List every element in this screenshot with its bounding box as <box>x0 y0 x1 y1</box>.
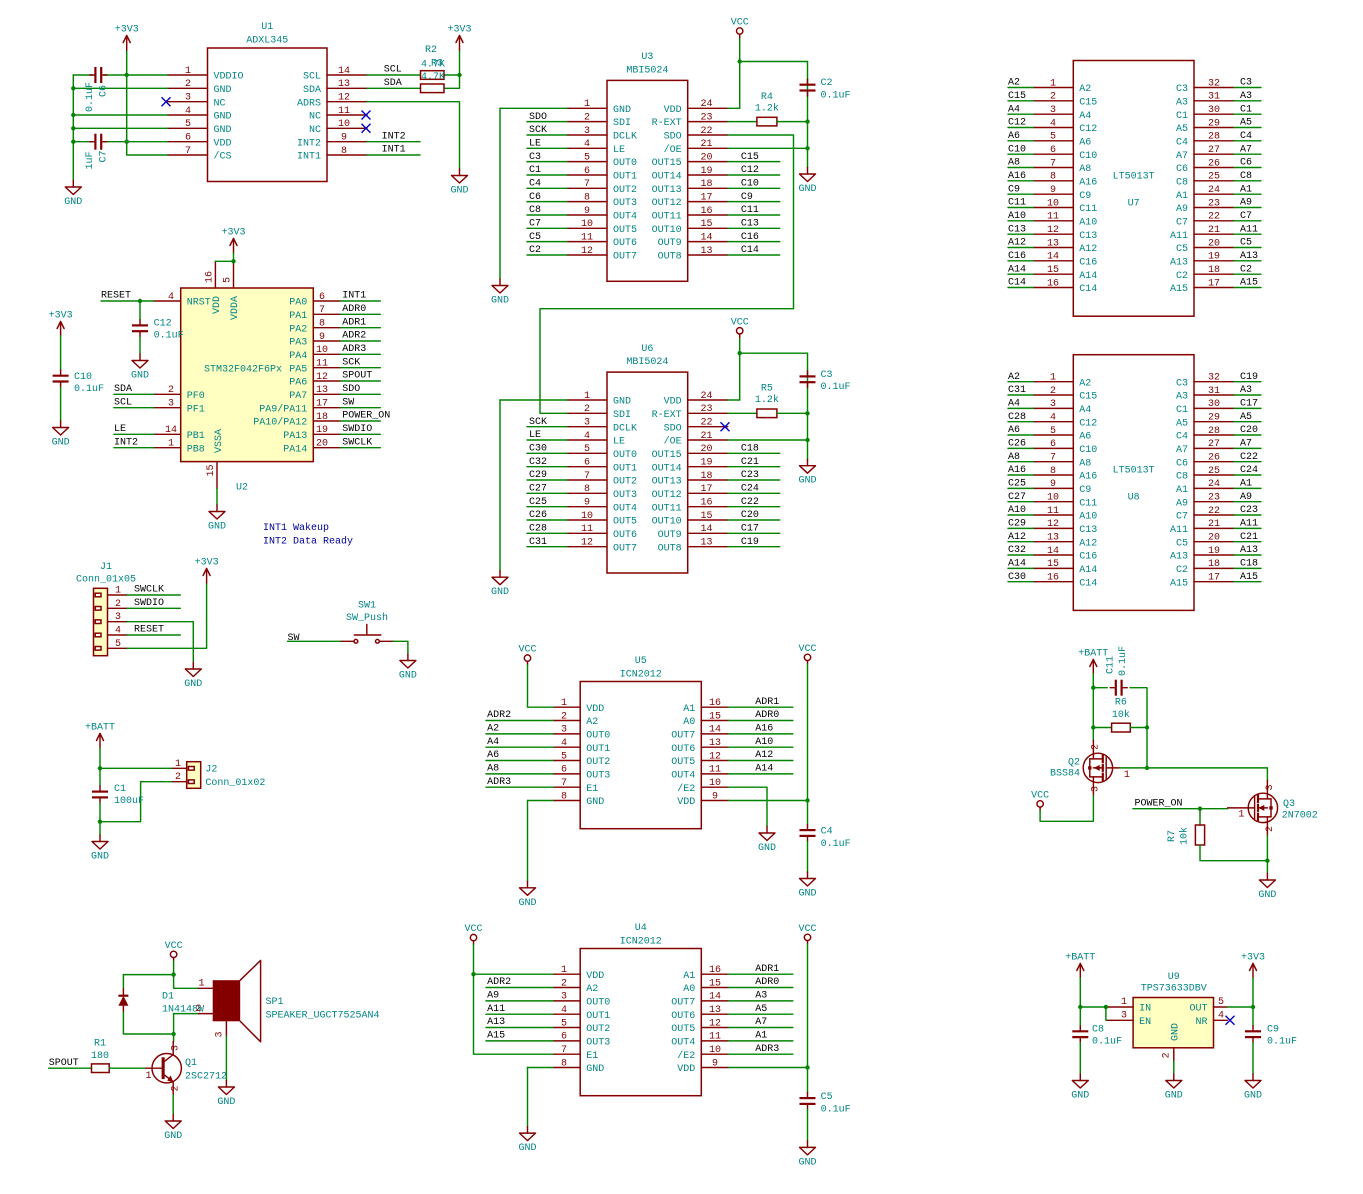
wire A9 <box>1234 207 1261 209</box>
svg-text:12: 12 <box>1047 225 1059 236</box>
svg-text:7: 7 <box>1050 453 1056 464</box>
svg-text:2: 2 <box>1162 1052 1173 1058</box>
svg-text:OUT3: OUT3 <box>613 490 637 501</box>
svg-text:GND: GND <box>586 797 604 808</box>
svg-text:12: 12 <box>316 372 328 383</box>
svg-text:A6: A6 <box>1079 137 1091 148</box>
svg-text:C1: C1 <box>114 784 126 795</box>
power +BATT <box>85 723 115 749</box>
svg-text:DCLK: DCLK <box>613 132 637 143</box>
svg-text:1: 1 <box>584 391 590 402</box>
svg-text:7: 7 <box>185 146 191 157</box>
wire SCK <box>527 426 567 428</box>
svg-text:11: 11 <box>1047 212 1059 223</box>
wire A13 <box>486 1027 553 1029</box>
svg-text:C27: C27 <box>529 484 547 495</box>
svg-text:22: 22 <box>700 126 712 137</box>
resistor R4 1.2k <box>755 92 779 126</box>
wire SDO <box>527 121 567 123</box>
svg-text:SCK: SCK <box>529 417 547 428</box>
junction <box>1091 686 1095 690</box>
svg-text:C7: C7 <box>1176 512 1188 523</box>
svg-text:C12: C12 <box>1079 418 1097 429</box>
svg-text:A8: A8 <box>1008 158 1020 169</box>
svg-text:OUT6: OUT6 <box>613 238 637 249</box>
svg-text:OUT11: OUT11 <box>652 212 682 223</box>
svg-text:17: 17 <box>1208 278 1220 289</box>
svg-text:PA3: PA3 <box>289 338 307 349</box>
svg-text:C11: C11 <box>1008 198 1026 209</box>
wire down <box>807 122 809 149</box>
svg-text:5: 5 <box>115 639 121 650</box>
IC U2 STM32F042F6Px <box>154 261 341 493</box>
svg-text:/E2: /E2 <box>677 1050 695 1062</box>
wire to GND <box>393 641 408 654</box>
junction <box>125 73 129 77</box>
junction <box>1198 807 1202 811</box>
svg-text:2: 2 <box>584 112 590 123</box>
wire ADR0 <box>728 720 793 722</box>
resistor R2 4.7K <box>421 45 446 83</box>
wire +BATT down <box>1079 978 1081 1026</box>
wire C27 <box>1008 501 1033 503</box>
svg-text:13: 13 <box>1047 238 1059 249</box>
junction <box>805 1065 809 1069</box>
svg-text:C4: C4 <box>1240 131 1252 142</box>
ground <box>518 881 536 909</box>
svg-text:INT1: INT1 <box>342 291 366 302</box>
wire VDD pin9 <box>728 1067 807 1069</box>
wire ADR3 <box>486 786 553 788</box>
svg-text:A2: A2 <box>487 724 499 735</box>
svg-text:15: 15 <box>709 711 721 722</box>
svg-text:EN: EN <box>1139 1017 1151 1028</box>
wire A3 <box>1234 100 1261 102</box>
wire Q2 drain to VCC <box>1040 795 1093 821</box>
svg-text:3: 3 <box>1265 784 1276 790</box>
svg-text:VSSA: VSSA <box>214 429 225 453</box>
wire SDO U3 to SDI U6 <box>540 135 794 413</box>
wire to GND <box>807 148 809 167</box>
svg-text:MBI5024: MBI5024 <box>626 357 668 368</box>
svg-text:17: 17 <box>700 192 712 203</box>
junction <box>1145 766 1149 770</box>
wire A10 <box>1008 220 1033 222</box>
svg-text:2: 2 <box>561 978 567 989</box>
svg-text:17: 17 <box>316 399 328 410</box>
wire A2 <box>1008 381 1033 383</box>
svg-text:OUT0: OUT0 <box>613 450 637 461</box>
svg-text:18: 18 <box>700 471 712 482</box>
svg-text:6: 6 <box>584 458 590 469</box>
svg-text:6: 6 <box>319 292 325 303</box>
wire ADR2 <box>340 340 380 342</box>
junction <box>71 126 75 130</box>
svg-text:14: 14 <box>709 725 721 736</box>
svg-text:C21: C21 <box>741 457 759 468</box>
svg-text:19: 19 <box>1208 252 1220 263</box>
svg-text:9: 9 <box>341 133 347 144</box>
svg-text:SWCLK: SWCLK <box>134 585 164 596</box>
svg-text:GND: GND <box>131 371 149 382</box>
junction <box>98 766 102 770</box>
svg-text:13: 13 <box>700 246 712 257</box>
wire R6 right <box>1130 727 1147 729</box>
svg-text:OUT10: OUT10 <box>652 517 682 528</box>
svg-text:15: 15 <box>709 978 721 989</box>
svg-text:26: 26 <box>1208 453 1220 464</box>
svg-text:OUT12: OUT12 <box>652 490 682 501</box>
junction <box>805 411 809 415</box>
wire C6 <box>527 201 567 203</box>
svg-text:C28: C28 <box>529 524 547 535</box>
wire VCC drop <box>739 337 741 400</box>
junction <box>171 1032 175 1036</box>
svg-text:GND: GND <box>1258 890 1276 901</box>
wire SW <box>340 407 380 409</box>
svg-text:OUT3: OUT3 <box>613 198 637 209</box>
svg-text:5: 5 <box>584 444 590 455</box>
power VCC <box>798 924 816 944</box>
svg-text:180: 180 <box>91 1051 109 1062</box>
svg-text:A8: A8 <box>1079 164 1091 175</box>
wire A5 <box>728 1013 793 1015</box>
wire C7 <box>1234 220 1261 222</box>
svg-text:26: 26 <box>1208 158 1220 169</box>
svg-text:A5: A5 <box>1240 118 1252 129</box>
wire NRST <box>101 300 154 302</box>
svg-text:C3: C3 <box>1176 84 1188 95</box>
svg-text:GND: GND <box>64 197 82 208</box>
svg-text:16: 16 <box>1047 573 1059 584</box>
svg-text:OUT1: OUT1 <box>586 744 610 755</box>
svg-text:VCC: VCC <box>798 924 816 935</box>
wire VDD <box>728 399 740 401</box>
power +BATT <box>1078 649 1108 675</box>
svg-text:OUT2: OUT2 <box>613 477 637 488</box>
svg-text:TPS73633DBV: TPS73633DBV <box>1141 983 1207 994</box>
svg-text:4.7K: 4.7K <box>421 72 445 83</box>
wire to Q1 collector <box>173 1034 175 1042</box>
wire +3V3 drop <box>459 50 461 75</box>
wire R7 to GND net <box>1200 845 1267 861</box>
wire C23 <box>1234 514 1261 516</box>
wire +3V3 OUT <box>1252 978 1254 1026</box>
svg-text:10: 10 <box>316 345 328 356</box>
svg-text:C17: C17 <box>741 524 759 535</box>
svg-text:ADR1: ADR1 <box>342 317 366 328</box>
svg-text:C9: C9 <box>1267 1024 1279 1035</box>
svg-text:A9: A9 <box>1240 198 1252 209</box>
wire C14 <box>728 254 780 256</box>
wire A13 <box>1234 260 1261 262</box>
svg-text:C16: C16 <box>1079 257 1097 268</box>
svg-text:C4: C4 <box>821 827 833 838</box>
wire C2 <box>1234 273 1261 275</box>
capacitor C8 0.1uF <box>1072 1024 1122 1047</box>
svg-text:2SC2712: 2SC2712 <box>185 1071 227 1082</box>
svg-text:17: 17 <box>1208 573 1220 584</box>
svg-text:ADR2: ADR2 <box>487 977 511 988</box>
svg-text:SPOUT: SPOUT <box>342 371 372 382</box>
svg-text:2: 2 <box>168 385 174 396</box>
svg-text:0.1uF: 0.1uF <box>154 331 184 342</box>
svg-text:3: 3 <box>171 1045 182 1051</box>
svg-text:A16: A16 <box>1008 465 1026 476</box>
capacitor C10 0.1uF <box>53 370 104 395</box>
svg-text:E1: E1 <box>586 784 598 795</box>
svg-text:VDD: VDD <box>677 1064 695 1075</box>
svg-text:C27: C27 <box>1008 492 1026 503</box>
svg-text:POWER_ON: POWER_ON <box>342 411 390 422</box>
svg-text:A16: A16 <box>755 724 773 735</box>
wire C17 <box>1234 407 1261 409</box>
svg-text:C12: C12 <box>1079 124 1097 135</box>
svg-text:C10: C10 <box>1008 144 1026 155</box>
svg-text:OUT12: OUT12 <box>652 198 682 209</box>
svg-text:C1: C1 <box>1176 111 1188 122</box>
svg-text:/CS: /CS <box>214 151 232 163</box>
wire C6 left <box>73 74 92 76</box>
svg-text:A11: A11 <box>1170 231 1188 242</box>
svg-text:3: 3 <box>561 725 567 736</box>
svg-text:5: 5 <box>561 1018 567 1029</box>
svg-text:SDI: SDI <box>613 410 631 421</box>
svg-text:A3: A3 <box>1176 392 1188 403</box>
svg-text:31: 31 <box>1208 386 1220 397</box>
svg-text:C2: C2 <box>1240 264 1252 275</box>
svg-text:3: 3 <box>584 418 590 429</box>
svg-text:U3: U3 <box>641 52 653 63</box>
svg-text:27: 27 <box>1208 145 1220 156</box>
svg-text:A6: A6 <box>487 750 499 761</box>
svg-text:VDD: VDD <box>212 296 223 314</box>
wire SP1 pin2 down <box>173 1014 175 1034</box>
svg-text:12: 12 <box>581 246 593 257</box>
svg-text:SW1: SW1 <box>358 601 376 612</box>
wire C18 <box>1234 567 1261 569</box>
svg-text:OUT7: OUT7 <box>613 252 637 263</box>
wire C29 <box>527 479 567 481</box>
svg-text:32: 32 <box>1208 373 1220 384</box>
svg-text:A12: A12 <box>1008 532 1026 543</box>
svg-text:C32: C32 <box>529 457 547 468</box>
svg-text:8: 8 <box>1050 466 1056 477</box>
svg-text:POWER_ON: POWER_ON <box>1135 798 1183 809</box>
svg-text:13: 13 <box>709 1005 721 1016</box>
svg-text:IN: IN <box>1139 1004 1151 1015</box>
junction <box>71 140 75 144</box>
svg-text:C4: C4 <box>1176 137 1188 148</box>
svg-text:C6: C6 <box>1176 458 1188 469</box>
svg-text:LE: LE <box>529 139 541 150</box>
svg-text:PF0: PF0 <box>187 391 205 402</box>
svg-text:25: 25 <box>1208 466 1220 477</box>
wire to GND <box>807 440 809 459</box>
svg-text:32: 32 <box>1208 78 1220 89</box>
wire ADR1 <box>728 706 793 708</box>
svg-text:10: 10 <box>709 778 721 789</box>
svg-text:A8: A8 <box>487 764 499 775</box>
svg-text:16: 16 <box>709 698 721 709</box>
ground <box>798 872 816 900</box>
wire C8 <box>1234 180 1261 182</box>
svg-text:C9: C9 <box>741 192 753 203</box>
svg-text:GND: GND <box>399 671 417 682</box>
wire A1 <box>728 1040 793 1042</box>
capacitor C1 100uF <box>92 784 144 807</box>
svg-text:C11: C11 <box>1079 204 1097 215</box>
svg-text:4: 4 <box>168 292 174 303</box>
svg-text:C3: C3 <box>1240 78 1252 89</box>
svg-text:VDD: VDD <box>664 397 682 408</box>
svg-text:VCC: VCC <box>165 941 183 952</box>
svg-text:C15: C15 <box>741 152 759 163</box>
svg-text:3: 3 <box>584 126 590 137</box>
svg-text:OUT13: OUT13 <box>652 477 682 488</box>
svg-text:A1: A1 <box>1176 191 1188 202</box>
wire A10 <box>728 746 793 748</box>
svg-text:OUT9: OUT9 <box>658 530 682 541</box>
wire A7 <box>1234 447 1261 449</box>
wire POWER_ON <box>1133 808 1228 810</box>
power VCC <box>464 924 482 944</box>
svg-text:SWDIO: SWDIO <box>134 598 164 609</box>
svg-text:GND: GND <box>52 438 70 449</box>
svg-text:C28: C28 <box>1008 412 1026 423</box>
transistor Q3 2N7002 <box>1228 780 1318 835</box>
svg-text:A0: A0 <box>683 984 695 995</box>
svg-text:13: 13 <box>709 738 721 749</box>
svg-text:11: 11 <box>709 765 721 776</box>
svg-text:3: 3 <box>168 399 174 410</box>
wire C22 <box>728 506 780 508</box>
ground <box>1244 1074 1262 1102</box>
wire VDD pin9 <box>728 800 807 802</box>
wire C28 <box>527 532 567 534</box>
svg-text:VCC: VCC <box>518 645 536 656</box>
svg-text:OUT1: OUT1 <box>586 1011 610 1022</box>
svg-text:GND: GND <box>1165 1091 1183 1102</box>
svg-text:C1: C1 <box>1240 104 1252 115</box>
svg-text:C10: C10 <box>741 179 759 190</box>
svg-text:2: 2 <box>175 772 181 783</box>
svg-text:C25: C25 <box>529 497 547 508</box>
wire C30 <box>1008 581 1033 583</box>
wire VCC down <box>807 944 809 1068</box>
svg-text:OUT: OUT <box>1189 1004 1207 1015</box>
svg-text:4: 4 <box>115 626 121 637</box>
ground <box>798 168 816 196</box>
svg-text:C5: C5 <box>821 1092 833 1103</box>
svg-text:OUT7: OUT7 <box>613 543 637 554</box>
svg-text:A16: A16 <box>1079 177 1097 188</box>
junction <box>805 119 809 123</box>
wire C8 <box>527 214 567 216</box>
svg-text:C10: C10 <box>74 372 92 383</box>
svg-text:8: 8 <box>561 1058 567 1069</box>
svg-text:C2: C2 <box>821 78 833 89</box>
power VCC <box>518 645 536 665</box>
svg-text:R2: R2 <box>425 45 437 56</box>
wire C16 <box>1008 260 1033 262</box>
wire to C5 <box>807 1068 809 1093</box>
wire SWCLK <box>340 447 380 449</box>
svg-text:SP1: SP1 <box>266 997 284 1008</box>
wire LE <box>114 433 154 435</box>
wire GND <box>528 1067 554 1069</box>
wire C20 <box>728 519 780 521</box>
wire A4 <box>486 746 553 748</box>
wire SWDIO <box>340 433 380 435</box>
speaker SP1 SPEAKER_UGCT7525AN4 <box>195 960 379 1041</box>
svg-text:0.1uF: 0.1uF <box>1118 646 1129 676</box>
junction <box>1104 1005 1108 1009</box>
connector J1 Conn_01x05 <box>76 562 136 656</box>
svg-text:OUT4: OUT4 <box>613 212 637 223</box>
wire J2 pin2 <box>141 781 173 783</box>
svg-text:NC: NC <box>214 98 226 109</box>
svg-text:RESET: RESET <box>134 625 164 636</box>
svg-text:C2: C2 <box>1176 271 1188 282</box>
wire C11 right <box>1130 688 1147 768</box>
svg-text:ADR1: ADR1 <box>755 964 779 975</box>
svg-text:10: 10 <box>581 219 593 230</box>
wire LE <box>527 439 567 441</box>
svg-text:C5: C5 <box>1240 238 1252 249</box>
svg-text:U2: U2 <box>236 483 248 494</box>
resistor R6 10k <box>1112 698 1131 732</box>
ground <box>450 169 468 197</box>
svg-text:ADR0: ADR0 <box>755 977 779 988</box>
wire C13 <box>728 227 780 229</box>
svg-text:C14: C14 <box>1079 284 1097 295</box>
svg-text:1: 1 <box>1121 997 1127 1008</box>
svg-text:PA14: PA14 <box>283 444 307 455</box>
power VCC <box>1031 791 1049 811</box>
svg-text:1: 1 <box>584 99 590 110</box>
wire SPOUT <box>340 380 380 382</box>
svg-text:C23: C23 <box>741 470 759 481</box>
wire C19 <box>728 546 780 548</box>
svg-text:23: 23 <box>700 112 712 123</box>
svg-text:ADR0: ADR0 <box>342 304 366 315</box>
svg-text:A7: A7 <box>1240 439 1252 450</box>
transistor Q1 2SC2712 <box>145 1042 227 1096</box>
wire to D1 top <box>123 974 173 976</box>
svg-text:C5: C5 <box>1176 244 1188 255</box>
svg-text:C24: C24 <box>1240 465 1258 476</box>
svg-text:11: 11 <box>338 106 350 117</box>
svg-text:100uF: 100uF <box>114 796 144 807</box>
wire C21 <box>728 466 780 468</box>
svg-text:A9: A9 <box>1176 204 1188 215</box>
svg-text:NR: NR <box>1195 1017 1207 1028</box>
svg-text:A7: A7 <box>1240 144 1252 155</box>
ground <box>208 505 226 533</box>
svg-text:A14: A14 <box>1008 264 1026 275</box>
svg-text:7: 7 <box>561 1045 567 1056</box>
svg-text:GND: GND <box>798 889 816 900</box>
svg-text:C8: C8 <box>1240 171 1252 182</box>
svg-text:OUT2: OUT2 <box>586 1024 610 1035</box>
svg-text:U8: U8 <box>1128 493 1140 504</box>
svg-text:ICN2012: ICN2012 <box>620 937 662 948</box>
svg-text:OUT15: OUT15 <box>652 158 682 169</box>
svg-text:4.7K: 4.7K <box>421 60 445 71</box>
wire to C11 <box>1093 687 1107 689</box>
svg-text:SCL: SCL <box>384 65 402 76</box>
